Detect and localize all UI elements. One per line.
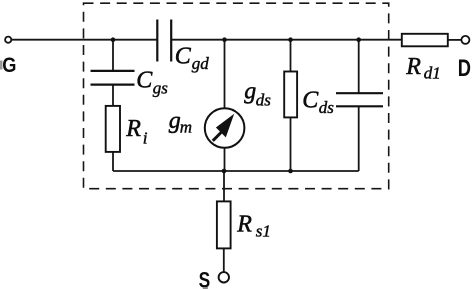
scan artifact left edge	[0, 61, 3, 70]
svg-text:R: R	[236, 211, 252, 237]
wire Cds to bottom rail	[358, 106, 360, 171]
node gm top	[222, 37, 227, 42]
terminal S circle	[219, 272, 229, 282]
wire Cgd to Rd1	[172, 39, 402, 41]
label Cgs	[136, 68, 168, 98]
svg-text:C: C	[302, 87, 319, 113]
node junction dots	[111, 37, 361, 173]
current source gm circle	[205, 108, 245, 148]
svg-text:m: m	[180, 118, 192, 137]
node gate/Cgs	[111, 37, 116, 42]
wire top rail to gds	[290, 40, 292, 72]
svg-text:G: G	[2, 54, 16, 77]
resistor Rs1	[217, 201, 231, 248]
label gm	[169, 108, 192, 136]
terminal D circle	[461, 36, 469, 44]
label gds	[244, 78, 271, 109]
svg-text:i: i	[143, 129, 148, 148]
wire Cgs to Ri	[112, 85, 114, 106]
svg-text:D: D	[458, 55, 471, 82]
wire gm source to bottom rail	[224, 148, 226, 171]
svg-text:S: S	[199, 267, 211, 289]
svg-text:s1: s1	[256, 222, 271, 241]
wire Ri to bottom rail	[112, 152, 114, 171]
label Cgd	[175, 44, 210, 73]
svg-text:gs: gs	[153, 79, 169, 98]
capacitor Cgs	[91, 71, 135, 85]
resistor Rd1	[402, 34, 448, 47]
svg-text:g: g	[244, 78, 256, 104]
svg-text:R: R	[405, 54, 421, 80]
resistor gds	[284, 72, 297, 118]
wire top rail to gm source	[224, 40, 226, 109]
capacitor Cgd	[157, 20, 171, 62]
capacitor Cds	[336, 93, 383, 106]
wire gds to bottom rail	[290, 117, 292, 171]
node gds bottom	[288, 169, 293, 174]
wire node gate to Cgs	[112, 40, 114, 71]
svg-text:gd: gd	[192, 54, 210, 73]
wire bottom rail	[113, 170, 359, 172]
label Cds	[302, 87, 334, 117]
svg-text:C: C	[175, 44, 192, 70]
svg-text:R: R	[125, 116, 141, 142]
svg-text:d1: d1	[424, 64, 441, 83]
node gm bottom	[222, 169, 227, 174]
label Ri	[125, 116, 148, 147]
dashed box (device model boundary)	[84, 3, 389, 189]
node Cds top	[356, 37, 361, 42]
resistor Ri	[106, 106, 120, 152]
wire top rail to Cds	[358, 40, 360, 93]
svg-text:ds: ds	[256, 91, 271, 110]
node gds top	[288, 37, 293, 42]
svg-text:ds: ds	[319, 98, 335, 117]
wire Rs1 to S	[223, 248, 225, 272]
terminal G circle	[5, 37, 11, 43]
wire G to Cgd	[12, 39, 158, 41]
svg-text:C: C	[136, 68, 153, 94]
scan artifact below S	[203, 287, 208, 289]
current source gm arrow	[213, 114, 234, 141]
label Rd1	[405, 54, 441, 82]
wire Rd1 to D	[448, 39, 462, 41]
wire bottom rail to Rs1	[223, 171, 225, 202]
label Rs1	[236, 211, 271, 240]
